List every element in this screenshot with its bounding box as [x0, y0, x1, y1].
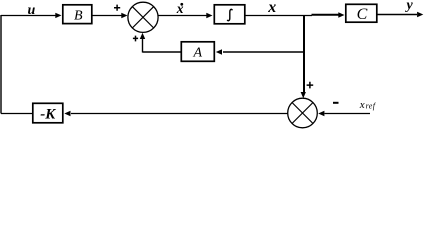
node branch [303, 15, 305, 93]
wire u input horizontal [1, 15, 56, 17]
label + at S1 left input [114, 5, 120, 11]
svg-text:x: x [359, 99, 365, 111]
wire xref input [325, 113, 371, 115]
label + at S1 bottom input [133, 36, 138, 42]
arrowhead into -K [64, 111, 70, 116]
summing junction S2 [288, 98, 318, 128]
svg-text:u: u [28, 3, 36, 18]
arrowhead output y [417, 12, 423, 17]
arrowhead into C [338, 12, 344, 17]
svg-text:ref: ref [366, 102, 377, 111]
wire S1 to integrator [159, 15, 208, 17]
wire bottom left to -K [1, 113, 33, 115]
block A [181, 42, 214, 62]
arrowhead into A [216, 49, 222, 54]
block C [346, 4, 377, 23]
svg-text:-K: -K [40, 106, 56, 122]
wire branch to block A [223, 51, 304, 53]
arrowhead into B [55, 13, 61, 18]
svg-text:C: C [357, 6, 368, 23]
arrowhead into S2 right [318, 111, 324, 116]
arrowhead into S1 bottom [140, 33, 145, 39]
wire C to output y [378, 14, 418, 16]
wire S2 to -K [71, 113, 288, 115]
arrowhead into S1 left [121, 13, 127, 18]
label minus at S2 right input [333, 102, 339, 104]
block -K [33, 103, 63, 123]
wire corner up to S1 bottom [142, 39, 144, 53]
svg-text:x: x [267, 0, 276, 16]
svg-text:A: A [193, 45, 203, 60]
summing junction S1 [128, 2, 158, 32]
wire B to summer S1 [93, 15, 123, 17]
wire integrator to branch node [246, 15, 313, 17]
wire A to corner [143, 51, 181, 53]
block B [63, 5, 92, 24]
svg-text:B: B [74, 9, 83, 24]
arrowhead into S2 top [301, 92, 306, 98]
wire left vertical feedback [0, 15, 2, 114]
wire branch to C [312, 14, 340, 16]
label xref [359, 99, 377, 111]
arrowhead into integrator [206, 13, 212, 18]
label xdot [176, 1, 184, 16]
svg-text:y: y [405, 0, 414, 13]
label + at S2 top input [307, 82, 314, 89]
block integrator [214, 5, 245, 24]
